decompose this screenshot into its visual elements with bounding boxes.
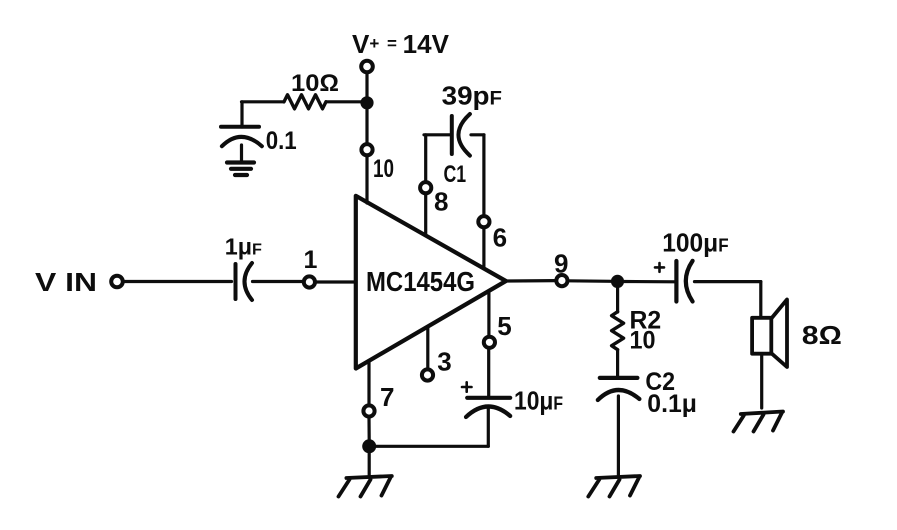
svg-text:7: 7 (380, 382, 394, 412)
svg-text:5: 5 (497, 311, 511, 341)
svg-text:8Ω: 8Ω (802, 320, 842, 350)
svg-text:10: 10 (630, 327, 656, 355)
svg-text:0.1: 0.1 (266, 127, 297, 155)
svg-text:10Ω: 10Ω (291, 70, 339, 97)
svg-text:100μF: 100μF (662, 227, 728, 257)
svg-text:8: 8 (434, 186, 448, 216)
svg-text:MC1454G: MC1454G (366, 266, 475, 297)
svg-text:C1: C1 (444, 161, 467, 188)
svg-text:3: 3 (437, 346, 451, 376)
svg-text:1μF: 1μF (225, 234, 262, 260)
svg-text:39pF: 39pF (442, 81, 502, 111)
svg-text:10: 10 (373, 155, 394, 183)
svg-text:9: 9 (554, 249, 568, 279)
svg-text:6: 6 (493, 222, 507, 252)
svg-text:V+ = 14V: V+ = 14V (352, 29, 450, 59)
svg-text:1: 1 (304, 246, 318, 274)
svg-text:10μF: 10μF (514, 386, 563, 416)
svg-text:0.1μ: 0.1μ (647, 390, 697, 418)
svg-text:V IN: V IN (35, 267, 97, 297)
